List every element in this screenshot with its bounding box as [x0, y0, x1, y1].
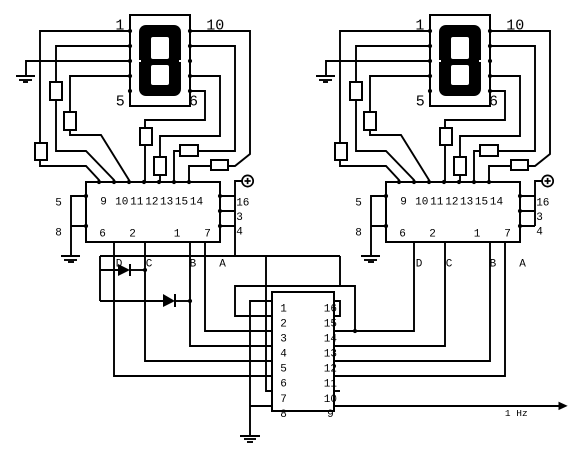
svg-text:6: 6 [280, 379, 287, 391]
resistor R1 [35, 143, 47, 160]
resistor R14 [511, 160, 528, 170]
svg-text:4: 4 [280, 349, 287, 361]
wire display1 pin2 to R2 to U1 pin10 [56, 46, 130, 182]
ground below U2 [361, 256, 380, 262]
wire diode D2 cathode to node B [175, 300, 190, 302]
resistor R2 [50, 82, 62, 100]
wire U3 pin1 and pin8 to ground [250, 301, 272, 436]
resistor R11 [440, 128, 452, 145]
wire U3 pin9 1Hz input line [334, 405, 559, 407]
svg-text:C: C [146, 258, 153, 270]
svg-text:3: 3 [536, 212, 543, 224]
svg-text:13: 13 [460, 196, 473, 208]
svg-text:11: 11 [430, 196, 444, 208]
1 Hz arrowhead [559, 402, 567, 409]
wire U3 pin16 pin15 jumper to reset net [334, 256, 340, 316]
svg-text:5: 5 [280, 364, 287, 376]
svg-text:B: B [190, 258, 197, 270]
node dot B diode junction [188, 299, 192, 303]
wire U2 pin7 node A to U3 pin11 [334, 241, 505, 376]
svg-text:8: 8 [280, 409, 287, 421]
resistor R7 [211, 160, 228, 170]
wire U1 pin7 node A to U3 pin3 [205, 241, 272, 331]
svg-text:11: 11 [324, 379, 338, 391]
svg-text:8: 8 [355, 227, 362, 239]
resistor R13 [480, 145, 498, 156]
svg-text:D: D [116, 258, 123, 270]
svg-text:10: 10 [324, 394, 337, 406]
diode D2 [163, 294, 175, 307]
display DS1 pin dots [128, 29, 192, 93]
svg-text:1: 1 [115, 17, 124, 34]
wire display1 pin7 to R5 to U1 pin13 [160, 76, 220, 182]
svg-text:C: C [446, 258, 453, 270]
wire display1 pin9 to Rh1 to U1 pin15 [174, 46, 235, 182]
svg-text:1: 1 [474, 229, 481, 241]
wire display1 pin10 to Rh2 to U1 pin14 [189, 31, 250, 182]
svg-text:1: 1 [415, 17, 424, 34]
wire display2 pin3 to ground [326, 61, 430, 76]
wire display2 pin6 to R11 to U2 pin12 [445, 91, 505, 182]
svg-text:1: 1 [280, 304, 287, 316]
svg-text:12: 12 [445, 196, 458, 208]
svg-text:10: 10 [415, 196, 428, 208]
wire U1 pins 5,8 bracket to ground [71, 196, 86, 256]
svg-text:6: 6 [189, 94, 198, 111]
svg-text:10: 10 [206, 17, 224, 34]
7-segment display DS1 [130, 15, 190, 106]
wire U2 pin2 node C to U3 pin13 [334, 241, 445, 346]
7-segment display DS2 [430, 15, 490, 106]
svg-text:16: 16 [324, 304, 337, 316]
decoder U2 [386, 182, 520, 242]
svg-text:16: 16 [536, 197, 549, 209]
svg-text:A: A [219, 258, 226, 270]
wire display1 pin6 to R4 to U1 pin12 [145, 91, 205, 182]
decoder U1 [86, 182, 220, 242]
wire display2 pin10 to R14 to U2 pin14 [489, 31, 550, 182]
wire U2 pin6 node D to U3 pin14 [334, 241, 414, 331]
svg-text:B: B [490, 258, 497, 270]
ground below U1 [61, 256, 80, 262]
svg-text:15: 15 [475, 196, 488, 208]
svg-text:5: 5 [355, 198, 362, 210]
node dot C diode junction [143, 268, 147, 272]
svg-text:14: 14 [490, 196, 504, 208]
svg-text:9: 9 [400, 196, 407, 208]
resistor R3 [64, 112, 76, 130]
node dot U3 pin14 junction [353, 329, 357, 333]
wire U1 pin2 node C to U3 pin5 [145, 241, 272, 361]
svg-text:8: 8 [55, 227, 62, 239]
wire U1 pin6 node D to U3 pin6 [114, 241, 272, 376]
svg-text:7: 7 [204, 229, 211, 241]
ground top-left [16, 76, 35, 82]
wire display1 pin1 to R1 to U1 pin9 [40, 31, 130, 182]
display DS2 pin dots [428, 29, 492, 93]
svg-text:9: 9 [327, 409, 334, 421]
resistor R9 [350, 82, 362, 100]
diode D1 [118, 264, 130, 276]
wire U3 pin2 to pin14 junction [235, 286, 355, 331]
svg-text:12: 12 [324, 364, 337, 376]
wire power bus from plus symbol down to reset net [235, 181, 242, 256]
wire U1 pin1 node B to U3 pin4 [190, 241, 272, 346]
svg-text:3: 3 [236, 212, 243, 224]
wire U2 pins 16,3,4 stubs to power bus [520, 196, 535, 226]
svg-text:12: 12 [145, 196, 158, 208]
svg-text:15: 15 [324, 319, 337, 331]
svg-text:5: 5 [55, 198, 62, 210]
U1 top pin dots [84, 180, 222, 228]
resistor R8 [335, 143, 347, 160]
svg-text:7: 7 [280, 394, 287, 406]
svg-text:10: 10 [506, 17, 524, 34]
svg-text:14: 14 [324, 334, 338, 346]
svg-text:4: 4 [236, 227, 243, 239]
resistor R4 [140, 128, 152, 145]
wire diode D1 cathode to node C [130, 269, 145, 271]
wire reset net horizontal [100, 255, 340, 257]
wire diode anode box [100, 256, 163, 301]
wire display1 pin3 to ground [26, 61, 130, 76]
ground below U3 [240, 436, 260, 442]
svg-text:14: 14 [190, 196, 204, 208]
svg-text:1: 1 [174, 229, 181, 241]
svg-text:6: 6 [399, 229, 406, 241]
svg-text:9: 9 [100, 196, 107, 208]
svg-text:2: 2 [129, 229, 136, 241]
wire display2 pin2 to R9 to U2 pin10 [356, 46, 430, 182]
wire display2 pin9 to R13 to U2 pin15 [474, 46, 535, 182]
svg-text:10: 10 [115, 196, 128, 208]
svg-text:2: 2 [429, 229, 436, 241]
svg-text:5: 5 [416, 94, 425, 111]
ground top-right [316, 76, 335, 82]
wire U2 pins 5,8 bracket to ground [371, 196, 386, 256]
power symbol U2 [542, 175, 553, 186]
resistor R6 [180, 145, 198, 156]
svg-text:6: 6 [99, 229, 106, 241]
resistor R5 [154, 157, 166, 175]
wire display2 pin4 to R10 to U2 pin11 [370, 76, 430, 182]
svg-text:15: 15 [175, 196, 188, 208]
svg-text:4: 4 [536, 227, 543, 239]
svg-text:3: 3 [280, 334, 287, 346]
wire display2 pin7 to R12 to U2 pin13 [460, 76, 520, 182]
svg-text:7: 7 [504, 229, 511, 241]
wire U3 pin10 stub [334, 390, 340, 392]
resistor R10 [364, 112, 376, 130]
power symbol U1 [242, 175, 253, 186]
counter U3 [272, 292, 334, 411]
svg-text:1 Hz: 1 Hz [505, 408, 528, 419]
resistor R12 [454, 157, 466, 175]
svg-text:13: 13 [324, 349, 337, 361]
wire U3 pin7 to reset net [266, 256, 272, 391]
svg-text:2: 2 [280, 319, 287, 331]
svg-text:A: A [519, 258, 526, 270]
svg-text:11: 11 [130, 196, 144, 208]
wire power bus right from plus symbol [535, 181, 542, 226]
svg-text:16: 16 [236, 197, 249, 209]
wire display1 pin4 to R3 to U1 pin11 [70, 76, 130, 182]
wire U2 pin1 node B to U3 pin12 [334, 241, 490, 361]
wire display2 pin1 to R8 to U2 pin9 [340, 31, 430, 182]
svg-text:5: 5 [116, 94, 125, 111]
U2 pin dots [384, 180, 522, 228]
svg-text:6: 6 [489, 94, 498, 111]
wire U1 pins 16,3,4 stubs to power bus [220, 196, 235, 226]
svg-text:D: D [416, 258, 423, 270]
svg-text:13: 13 [160, 196, 173, 208]
